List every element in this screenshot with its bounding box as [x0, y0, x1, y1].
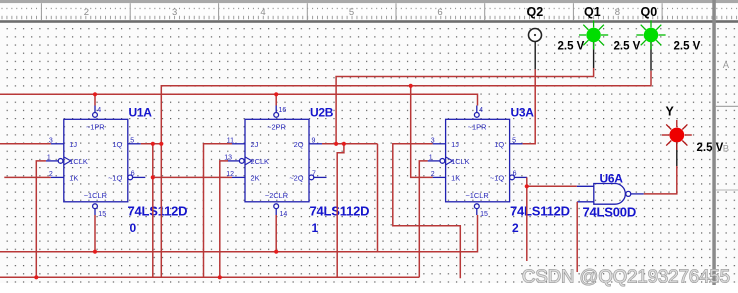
svg-text:~1CLR: ~1CLR — [465, 191, 488, 200]
wire bus R (preset bus) — [0, 94, 478, 105]
svg-text:B: B — [723, 144, 729, 155]
wire 2CLK U2B — [220, 161, 228, 277]
svg-text:1K: 1K — [69, 174, 78, 183]
svg-text:CSDN @QQ2193276455: CSDN @QQ2193276455 — [522, 266, 730, 287]
wire Y probe lead — [676, 142, 678, 166]
svg-text:74LS112D: 74LS112D — [310, 204, 370, 219]
svg-text:2.5 V: 2.5 V — [697, 142, 724, 154]
wire node c (1Q fanout down) — [152, 144, 154, 277]
probe labels — [527, 5, 675, 119]
svg-text:6: 6 — [437, 7, 442, 18]
wire bus P (2Q to Q1 probe) — [336, 68, 593, 144]
svg-text:4: 4 — [479, 107, 483, 114]
probe Y (on, red) — [662, 120, 692, 150]
svg-text:1Q: 1Q — [112, 140, 122, 149]
svg-text:1J: 1J — [451, 140, 459, 149]
svg-text:2: 2 — [84, 7, 89, 18]
svg-text:~1Q: ~1Q — [108, 174, 122, 183]
node pin16 U2B junction — [274, 92, 278, 96]
svg-text:U1A: U1A — [129, 106, 153, 120]
svg-text:2.5 V: 2.5 V — [558, 41, 585, 53]
svg-text:5: 5 — [512, 138, 516, 145]
svg-text:2J: 2J — [251, 140, 259, 149]
JK flip-flop U2B (74LS112D) — [224, 106, 326, 218]
probe Q0 (on, green) — [636, 20, 665, 49]
svg-text:1: 1 — [47, 155, 51, 162]
svg-text:A: A — [723, 60, 730, 71]
node 2K junction — [151, 175, 155, 179]
probe Q2 (off) — [529, 29, 542, 42]
svg-text:6: 6 — [513, 171, 517, 178]
svg-text:74LS00D: 74LS00D — [583, 205, 637, 220]
svg-text:16: 16 — [279, 107, 287, 114]
node pin15 U1A junction — [93, 250, 97, 254]
node 1CLK junction — [34, 275, 38, 279]
svg-text:~1CLR: ~1CLR — [84, 191, 107, 200]
JK flip-flop U3A (74LS112D) — [428, 106, 527, 218]
wire clock bus — [0, 276, 419, 278]
svg-text:U3A: U3A — [511, 106, 535, 120]
node 2CLK junction — [218, 275, 222, 279]
wire 1J U1A — [0, 143, 51, 145]
wire Q0 probe lead — [650, 42, 652, 71]
wire U1A pin4 riser — [94, 94, 96, 105]
wire NAND input 2 riser — [576, 202, 578, 272]
wire bus Q (1Q U1A to Q0 probe) — [161, 71, 651, 278]
wire 2Q feedback jog — [337, 144, 344, 277]
wire Q1 probe lead — [593, 42, 595, 68]
svg-text:~1PR: ~1PR — [468, 123, 487, 132]
svg-text:~2PR: ~2PR — [267, 123, 286, 132]
svg-text:2.5 V: 2.5 V — [614, 41, 641, 53]
svg-text:1K: 1K — [451, 174, 460, 183]
wire 2Q U2B — [322, 143, 378, 145]
black probe lead segments — [535, 42, 677, 166]
node 2Q junction a — [334, 142, 338, 146]
svg-text:6: 6 — [131, 171, 135, 178]
svg-text:8: 8 — [615, 7, 620, 18]
svg-text:14: 14 — [280, 211, 288, 218]
svg-text:1: 1 — [429, 155, 433, 162]
svg-text:Q2: Q2 — [527, 5, 544, 19]
JK flip-flop U1A (74LS112D) — [46, 106, 146, 218]
node 1K U3A junction — [409, 84, 413, 88]
node pin14 U2B junction — [274, 250, 278, 254]
svg-text:15: 15 — [480, 211, 488, 218]
svg-text:1CLK: 1CLK — [69, 157, 88, 166]
svg-text:Y: Y — [666, 105, 675, 119]
wire 1J U3A feedback — [393, 144, 461, 278]
node 1Q U1A junction a — [151, 142, 155, 146]
svg-text:2Q: 2Q — [294, 140, 304, 149]
svg-text:~2CLR: ~2CLR — [265, 191, 288, 200]
probe Q1 (on, green) — [579, 20, 608, 49]
svg-text:1: 1 — [312, 221, 319, 235]
svg-text:2: 2 — [512, 221, 519, 235]
svg-text:2K: 2K — [251, 174, 260, 183]
wire 1Q U3A to Q2 probe — [523, 69, 536, 144]
svg-text:9: 9 — [312, 138, 316, 145]
svg-text:1CLK: 1CLK — [451, 157, 470, 166]
wire 1K U3A from bus Q — [411, 86, 433, 178]
svg-text:~2Q: ~2Q — [289, 174, 303, 183]
svg-text:15: 15 — [98, 211, 106, 218]
svg-text:U2B: U2B — [310, 106, 334, 120]
wire U2B pin14 riser — [275, 215, 277, 252]
svg-text:5: 5 — [349, 7, 354, 18]
svg-text:74LS112D: 74LS112D — [510, 204, 570, 219]
svg-text:1J: 1J — [69, 140, 77, 149]
svg-text:~1PR: ~1PR — [86, 123, 105, 132]
svg-text:0: 0 — [130, 221, 137, 235]
svg-text:4: 4 — [97, 107, 101, 114]
wire 2Q down to clear line — [377, 144, 379, 252]
wire clear bus — [0, 215, 478, 252]
wire Q2 probe lead — [534, 42, 536, 69]
svg-text:2.5 V: 2.5 V — [674, 41, 701, 53]
svg-text:U6A: U6A — [600, 172, 624, 186]
node NAND input junction — [525, 184, 529, 188]
svg-text:1Q: 1Q — [494, 140, 504, 149]
svg-text:~1Q: ~1Q — [490, 174, 504, 183]
svg-text:4: 4 — [260, 7, 265, 18]
wire 1Q U1A — [141, 143, 162, 145]
wire 1CLK U3A — [419, 161, 427, 277]
wire 1CLK U1A — [36, 161, 46, 277]
svg-text:5: 5 — [130, 138, 134, 145]
NAND gate U6A (74LS00D) — [577, 184, 644, 205]
wire ~1Q U3A to NAND input 1 — [526, 177, 528, 261]
svg-text:2CLK: 2CLK — [251, 157, 270, 166]
wire 2J U2B — [204, 144, 233, 277]
wire 2K (1Q U1A to 2K U2B) — [153, 176, 232, 178]
top border ruler — [0, 0, 738, 23]
wire U2B pin16 riser — [275, 94, 277, 105]
wire 1K U1A — [4, 176, 51, 178]
svg-text:3: 3 — [172, 7, 177, 18]
wire U1A pin15 riser — [94, 215, 96, 252]
node pin4 U1A junction — [93, 92, 97, 96]
node 1Q U1A junction b — [159, 142, 163, 146]
wire NAND input 1 — [527, 185, 577, 187]
right sheet border — [712, 0, 738, 285]
wire NAND output to Y probe — [644, 166, 677, 194]
svg-text:Q1: Q1 — [584, 5, 601, 19]
node 2Q junction b — [342, 142, 346, 146]
svg-text:74LS112D: 74LS112D — [128, 204, 188, 219]
svg-text:Q0: Q0 — [641, 5, 658, 19]
svg-text:7: 7 — [312, 171, 316, 178]
